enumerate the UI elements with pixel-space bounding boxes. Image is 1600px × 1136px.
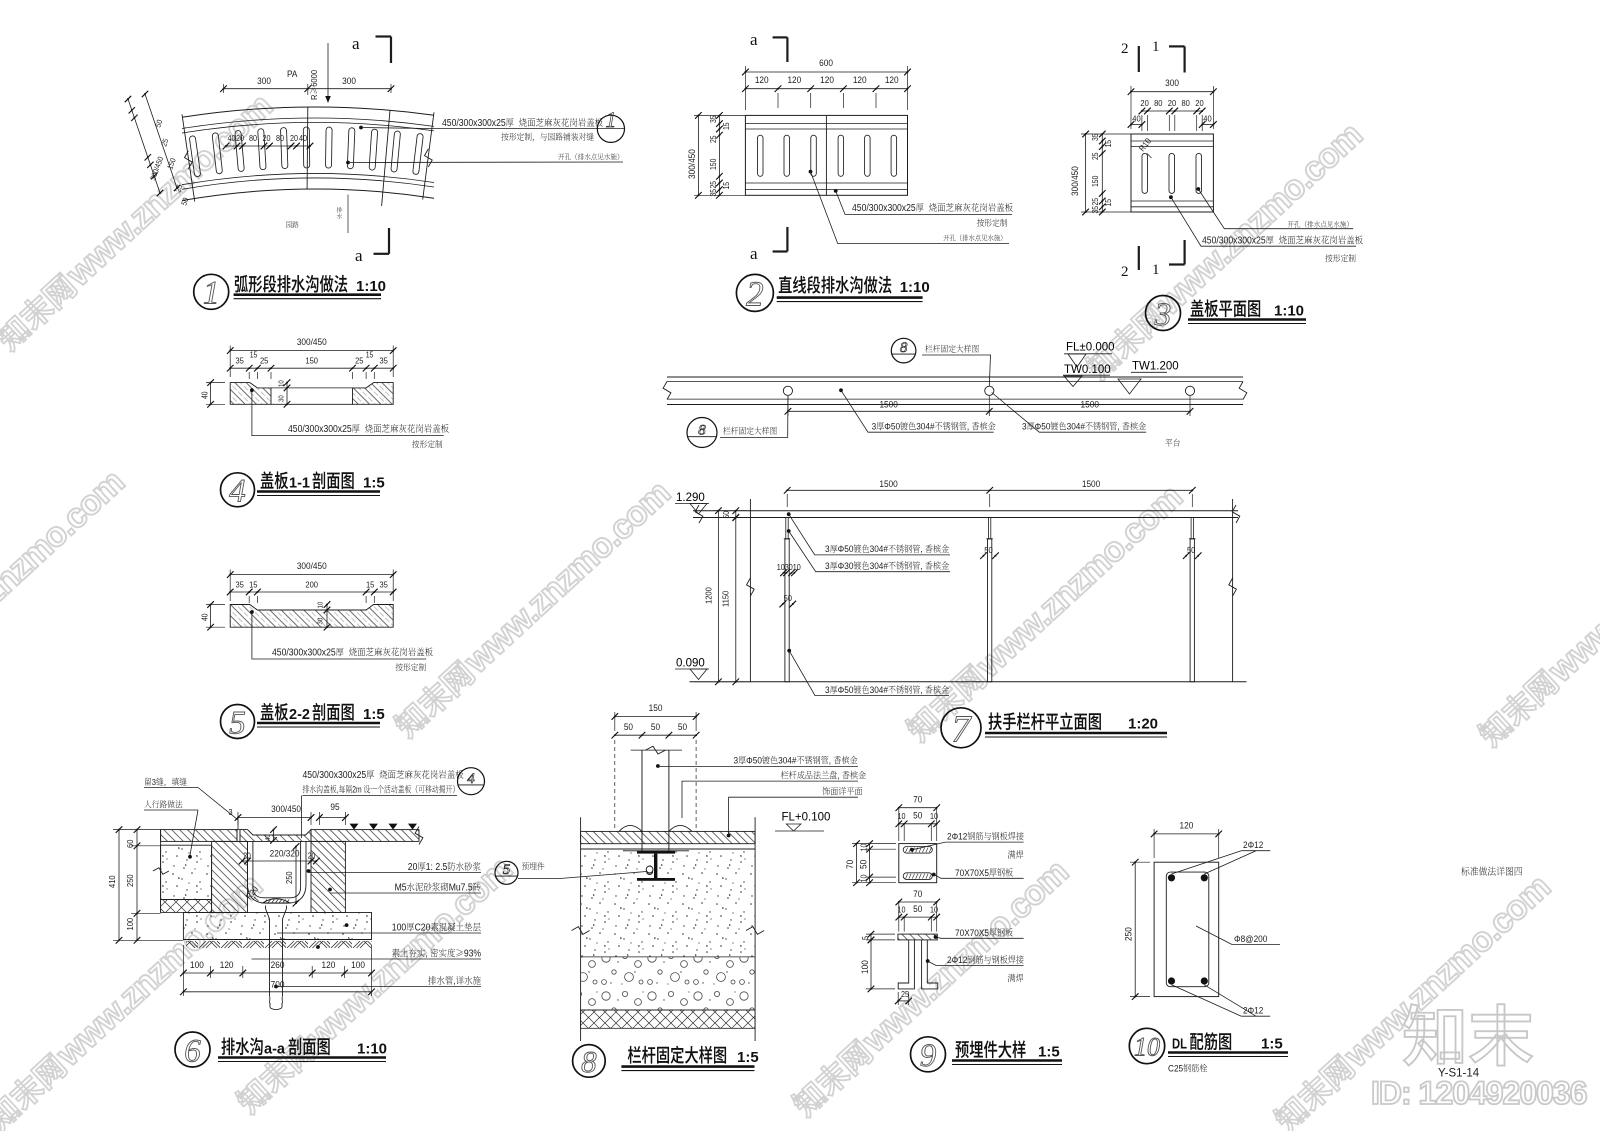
svg-text:a: a (352, 34, 360, 53)
title 10 (1129, 1028, 1164, 1063)
svg-text:60: 60 (126, 839, 136, 848)
svg-text:5: 5 (503, 862, 511, 878)
title 6 (175, 1032, 210, 1067)
R20 label (244, 884, 260, 901)
ref bubble 8 left (687, 418, 717, 448)
znzmo logo 知末 (1404, 1004, 1463, 1065)
svg-text:15: 15 (722, 122, 732, 130)
svg-text:250: 250 (1123, 927, 1134, 941)
svg-text:150: 150 (305, 356, 318, 366)
svg-text:100: 100 (392, 922, 406, 933)
svg-text:3: 3 (152, 778, 157, 788)
svg-text:a: a (355, 246, 363, 265)
leader rebar weld (910, 848, 914, 852)
svg-text:Mu7.5: Mu7.5 (449, 882, 473, 893)
title 4 (221, 473, 255, 507)
I-beam web (654, 854, 657, 878)
svg-text:10: 10 (1134, 1032, 1160, 1061)
svg-text:300/450: 300/450 (687, 149, 698, 179)
svg-text:80: 80 (249, 134, 257, 144)
right cut edge (1232, 499, 1234, 682)
svg-text:150: 150 (649, 703, 663, 714)
gravel layer (581, 957, 756, 1010)
svg-text:250: 250 (285, 871, 295, 884)
dim 300/450 (230, 574, 393, 576)
detail 5: cover plate section 2-2 (230, 605, 393, 628)
watermark chain top-left (0, 87, 279, 357)
svg-text:20: 20 (408, 862, 418, 873)
title 2 (736, 274, 773, 311)
svg-text:1:20: 1:20 (1128, 716, 1158, 733)
detail 1: curved drain channel band (182, 107, 434, 206)
bottom dims (183, 972, 371, 974)
posts (786, 518, 788, 539)
svg-text:35: 35 (1091, 206, 1101, 214)
svg-text:220/320: 220/320 (270, 848, 300, 859)
cover plate in place (section) (237, 830, 240, 842)
dim 35 15 25 150 25 15 35 (230, 367, 393, 369)
svg-text:3: 3 (1154, 297, 1172, 333)
svg-text:80: 80 (1181, 99, 1190, 109)
svg-text:304#: 304# (1067, 421, 1085, 432)
platform label (1165, 439, 1179, 447)
leader 2d12 top (1172, 851, 1242, 874)
svg-text:C20: C20 (415, 922, 431, 933)
svg-text:2: 2 (746, 275, 764, 314)
svg-text:70: 70 (845, 860, 856, 869)
pavement break right end (415, 827, 423, 845)
svg-text:0.090: 0.090 (676, 658, 705, 670)
svg-text:120: 120 (787, 75, 801, 86)
svg-text:Φ50: Φ50 (1035, 421, 1051, 432)
leader granite cover (834, 189, 838, 193)
dim 300/450 (230, 350, 393, 352)
svg-text:70X70X5: 70X70X5 (955, 867, 989, 878)
left sub dims (1101, 134, 1103, 212)
svg-text:93%: 93% (464, 948, 481, 959)
svg-text:Φ30: Φ30 (838, 561, 854, 572)
svg-text:Y-S1-14: Y-S1-14 (1438, 1068, 1480, 1080)
leader granite cover (1169, 195, 1173, 199)
left dims (118, 830, 120, 941)
svg-text:50: 50 (858, 860, 869, 869)
svg-text:450/300x300x25: 450/300x300x25 (288, 424, 352, 435)
left soil crosshatch (161, 900, 212, 913)
svg-text:304#: 304# (870, 544, 888, 555)
leader (250, 388, 254, 392)
svg-text:25: 25 (260, 356, 269, 366)
svg-text:95: 95 (330, 802, 339, 813)
svg-text:5: 5 (861, 936, 871, 940)
svg-text:450/300x300x25: 450/300x300x25 (272, 647, 336, 658)
dim 120 x5 (745, 88, 907, 90)
svg-text:PA: PA (287, 69, 298, 80)
svg-text:10: 10 (859, 874, 869, 882)
detail 3: cover plate plan (1131, 134, 1213, 212)
left brick wall (212, 841, 248, 912)
break mark (185, 151, 193, 169)
svg-text:15: 15 (1104, 199, 1114, 207)
svg-text:15: 15 (1104, 140, 1114, 148)
svg-text:35: 35 (709, 115, 719, 123)
svg-text:15: 15 (366, 580, 375, 590)
dim 40 cover (273, 830, 275, 841)
left cut edge (749, 499, 751, 682)
svg-text:2Φ12: 2Φ12 (947, 831, 967, 842)
radial joint right (382, 110, 390, 206)
svg-text:2Φ12: 2Φ12 (1243, 1005, 1263, 1016)
svg-text:Φ50: Φ50 (746, 755, 762, 766)
svg-text:35: 35 (379, 580, 388, 590)
dims top (70 / 10 50 10) (899, 807, 937, 809)
svg-text:15: 15 (366, 350, 374, 360)
dim 20 80 20 80 20 (1142, 110, 1202, 112)
svg-text:7: 7 (952, 708, 973, 750)
svg-text:1: 1 (605, 107, 616, 132)
svg-text:80: 80 (276, 134, 284, 144)
svg-text:1500: 1500 (879, 479, 897, 490)
svg-text:120: 120 (1180, 820, 1194, 831)
dim 250 channel (295, 847, 297, 904)
watermark chain left-edge partial (0, 463, 131, 733)
svg-text:1: 1 (203, 276, 220, 312)
svg-text:100: 100 (860, 960, 871, 974)
svg-text:Φ50: Φ50 (838, 685, 854, 696)
svg-text:120: 120 (853, 75, 867, 86)
svg-text:20: 20 (1168, 99, 1177, 109)
post (641, 750, 643, 851)
watermark chain bottom-right (1268, 868, 1557, 1136)
svg-text:a-a: a-a (264, 1042, 286, 1058)
svg-text:6000: 6000 (310, 70, 320, 87)
detail 4: cover plate section 1-1 (230, 383, 271, 405)
plan leader 1 (839, 388, 843, 392)
svg-text:50: 50 (913, 810, 922, 821)
open slot middle (271, 387, 353, 389)
band end cut (423, 112, 434, 199)
svg-text:50: 50 (651, 722, 660, 733)
detail 7: handrail plan view (667, 376, 1243, 378)
svg-text:600: 600 (819, 58, 833, 69)
svg-text:1: 1 (1152, 262, 1160, 278)
svg-text:,: , (453, 976, 455, 987)
leader stirrup (1196, 926, 1232, 945)
detail 10: DL reinforcement section (1154, 862, 1219, 996)
svg-text:1:5: 1:5 (1261, 1036, 1283, 1053)
svg-text:1500: 1500 (1081, 399, 1099, 410)
steel plate (side) (898, 934, 937, 940)
title 3 (1146, 296, 1181, 331)
svg-text:15: 15 (249, 580, 258, 590)
svg-text:260: 260 (271, 960, 285, 971)
welded rebars (plan) (903, 847, 932, 854)
svg-text:100: 100 (126, 917, 136, 930)
ground line (689, 681, 1246, 683)
svg-text:70: 70 (913, 889, 922, 900)
title 7 (941, 708, 981, 748)
svg-text:10: 10 (859, 843, 869, 851)
svg-text:1:10: 1:10 (900, 279, 930, 296)
stirrup (1166, 872, 1209, 987)
svg-text:1200: 1200 (704, 587, 714, 604)
detail 9: embedded part plan (899, 844, 937, 883)
svg-text:20: 20 (290, 134, 298, 144)
svg-text:1:5: 1:5 (1038, 1044, 1060, 1061)
svg-text:3: 3 (825, 544, 830, 555)
leader steel plate (side) (934, 935, 938, 939)
svg-text:8: 8 (698, 422, 706, 438)
slots (1142, 153, 1148, 193)
svg-text:450/300x300x25: 450/300x300x25 (303, 770, 367, 781)
rebar dots (1168, 874, 1175, 881)
plan dims 1500 1500 (788, 410, 1190, 412)
left dims 50 1200 1150 (735, 511, 737, 518)
svg-text:304#: 304# (870, 685, 888, 696)
watermark chain right-edge (1472, 483, 1600, 753)
svg-text:300/450: 300/450 (297, 561, 327, 572)
leader drilling (1196, 187, 1200, 191)
svg-text:40: 40 (265, 834, 272, 841)
drain slots (189, 136, 201, 177)
svg-text:40: 40 (1132, 114, 1141, 124)
svg-text:2Φ12: 2Φ12 (1243, 840, 1263, 851)
svg-text:1: 1 (1152, 39, 1160, 55)
svg-text:410: 410 (108, 875, 118, 888)
svg-text:TW1.200: TW1.200 (1132, 361, 1179, 373)
svg-text:,: , (1117, 421, 1122, 432)
title 9 (911, 1037, 946, 1072)
ref bubble 8 top (891, 338, 916, 363)
svg-text:120: 120 (220, 960, 234, 971)
dim 120 (1154, 833, 1219, 835)
svg-text:200: 200 (305, 580, 318, 590)
sidewalk pavement hatch (left) (161, 830, 237, 842)
svg-text:120: 120 (322, 960, 336, 971)
left slanted dimension (138, 113, 140, 115)
dims left (70 / 10 50 10) (856, 844, 858, 883)
leaders (656, 764, 660, 768)
svg-text:,: , (920, 561, 925, 572)
ref bubble 4 (458, 768, 485, 795)
title 5 (221, 705, 255, 739)
svg-text:ID: 1204920036: ID: 1204920036 (1371, 1075, 1587, 1111)
dims (70 / 10 50 10) (899, 901, 937, 903)
svg-text:25: 25 (1091, 198, 1101, 206)
svg-text:1:5: 1:5 (363, 475, 385, 492)
svg-text:FL+0.100: FL+0.100 (782, 812, 831, 824)
svg-text:120: 120 (885, 75, 899, 86)
svg-text:,: , (425, 948, 430, 959)
svg-text:30: 30 (317, 617, 324, 624)
svg-text:25: 25 (709, 181, 719, 189)
svg-text:70: 70 (913, 794, 922, 805)
post width dims 50 (984, 546, 993, 556)
garden path label (286, 221, 298, 228)
rail end breaks (695, 505, 703, 523)
slab edge breaks (572, 927, 590, 935)
svg-text:100: 100 (351, 960, 365, 971)
radial joint PA (306, 107, 309, 189)
dim 10 30 10 (777, 563, 801, 573)
svg-text:20: 20 (236, 134, 244, 144)
dim 30 10 (326, 605, 328, 628)
drain pipe (269, 919, 271, 996)
paver triangles (350, 824, 359, 830)
leader drilling note (346, 161, 350, 165)
svg-text:300: 300 (257, 76, 271, 87)
svg-text:8: 8 (900, 340, 908, 356)
top leaders (303, 770, 464, 781)
svg-text:25: 25 (355, 356, 364, 366)
leader 2d12 bottom (1172, 985, 1242, 1016)
svg-text:1:5: 1:5 (737, 1049, 759, 1066)
dim 5 (870, 934, 872, 940)
plaza pavement hatch (right) (311, 830, 419, 842)
svg-text:8: 8 (581, 1044, 597, 1079)
svg-text:304#: 304# (870, 561, 888, 572)
base concrete slab (183, 913, 371, 940)
svg-text:300: 300 (342, 76, 356, 87)
dim 3 / 300/450 / 95 (228, 808, 233, 818)
left boundary + break (160, 830, 162, 913)
ref bubble 5 + 预埋件 (495, 861, 518, 884)
svg-text:10: 10 (317, 601, 324, 608)
dim 220/320 (270, 848, 300, 859)
svg-text:150: 150 (709, 159, 719, 170)
leader rebar weld (side) (926, 959, 930, 963)
left dim 300/450 (697, 115, 699, 195)
dim 600 (745, 71, 907, 73)
svg-text:1150: 1150 (721, 590, 731, 607)
dim 40 40 (1131, 124, 1142, 126)
drain grate dome (263, 899, 291, 903)
soil crosshatch band (581, 1010, 756, 1028)
svg-text:3: 3 (872, 421, 877, 432)
svg-text:5: 5 (229, 705, 246, 741)
svg-text:Φ8@200: Φ8@200 (1234, 934, 1267, 945)
svg-text:,: , (337, 785, 339, 795)
svg-text:9: 9 (920, 1038, 937, 1074)
dims 150 / 50 50 50 (615, 716, 696, 718)
svg-text:40: 40 (299, 134, 307, 144)
svg-text:20: 20 (262, 134, 270, 144)
leader drilling (809, 170, 813, 174)
dim 35 15 200 15 35 (230, 591, 393, 593)
dim R>=6000 arrow (327, 43, 329, 100)
small dims 40 20 80 20 80 20 40 (226, 145, 310, 147)
svg-text:35: 35 (709, 189, 719, 197)
svg-text:1: 2.5: 1: 2.5 (426, 862, 448, 873)
svg-text:450/300x300x25: 450/300x300x25 (1202, 235, 1266, 246)
svg-text:50: 50 (624, 722, 633, 733)
flange domes (619, 825, 642, 831)
svg-text:450/300x300x25: 450/300x300x25 (852, 203, 916, 214)
svg-text:450/300x300x25: 450/300x300x25 (442, 118, 506, 129)
svg-text:120: 120 (820, 75, 834, 86)
svg-text:80: 80 (1154, 99, 1163, 109)
svg-text:3: 3 (825, 561, 830, 572)
svg-text:,: , (967, 421, 972, 432)
dim 300 (1131, 91, 1213, 93)
legs (898, 940, 914, 989)
svg-text:1500: 1500 (879, 399, 897, 410)
svg-text:10: 10 (278, 380, 285, 387)
left sub dims (718, 115, 720, 195)
watermark chain center (388, 474, 677, 744)
svg-text:4: 4 (467, 771, 475, 787)
plan leader 2 (992, 393, 1146, 433)
center joint (825, 115, 827, 195)
svg-text:70X70X5: 70X70X5 (955, 927, 989, 938)
watermark chain bottom-left corner (0, 867, 269, 1136)
R10 label (1137, 136, 1153, 153)
svg-text:3: 3 (825, 685, 830, 696)
detail 1 dim 300 PA 300 (224, 88, 392, 90)
svg-text:20: 20 (1195, 99, 1204, 109)
svg-text:100: 100 (190, 960, 204, 971)
svg-text:M5: M5 (395, 882, 407, 893)
svg-text:20: 20 (243, 851, 251, 861)
dim 40 (210, 383, 212, 405)
svg-text:35: 35 (379, 356, 388, 366)
svg-text:50: 50 (913, 904, 922, 915)
svg-text:20: 20 (308, 851, 316, 861)
svg-text:a: a (750, 30, 758, 49)
svg-text:15: 15 (250, 350, 258, 360)
watermark chain bottom-center (786, 853, 1075, 1123)
svg-text:300/450: 300/450 (271, 804, 301, 815)
svg-text:a: a (750, 244, 758, 263)
finish layer hatch (581, 831, 756, 843)
svg-text:,: , (829, 755, 834, 766)
svg-text:35: 35 (1091, 133, 1101, 141)
svg-text:40: 40 (1203, 114, 1212, 124)
svg-text:300/450: 300/450 (297, 337, 327, 348)
dim 25 (898, 1000, 909, 1002)
svg-text:Φ50: Φ50 (884, 421, 900, 432)
svg-text:25: 25 (1091, 152, 1101, 160)
title 1 (194, 274, 229, 309)
svg-text:R: R (310, 94, 320, 100)
svg-text:3: 3 (734, 755, 739, 766)
svg-text:300: 300 (1165, 78, 1179, 89)
dim 100 (870, 940, 872, 989)
tiny joint label (347, 195, 349, 234)
svg-text:35: 35 (235, 580, 244, 590)
svg-text:300/450: 300/450 (1070, 166, 1081, 196)
right brick wall (311, 841, 345, 912)
svg-text:30: 30 (278, 395, 285, 402)
dim 40 (210, 605, 212, 628)
left dim 300/450 (1085, 134, 1087, 212)
watermark chain lower-left (230, 850, 519, 1120)
svg-text:40: 40 (200, 613, 210, 621)
break mark (425, 149, 433, 167)
note 留3缝 (145, 778, 187, 788)
svg-text:1500: 1500 (1082, 479, 1100, 490)
svg-text:,: , (920, 544, 925, 555)
elevation dims 1500 (787, 489, 1192, 491)
svg-text:Φ50: Φ50 (838, 544, 854, 555)
svg-text:2-2: 2-2 (289, 707, 310, 723)
svg-text:2Φ12: 2Φ12 (947, 955, 967, 966)
embedded steel plate (623, 850, 689, 852)
I-beam bottom flange (637, 878, 675, 881)
compacted soil band (186, 940, 372, 953)
leader steel plate (932, 873, 936, 877)
svg-text:25: 25 (709, 135, 719, 143)
top rail (693, 510, 1238, 512)
